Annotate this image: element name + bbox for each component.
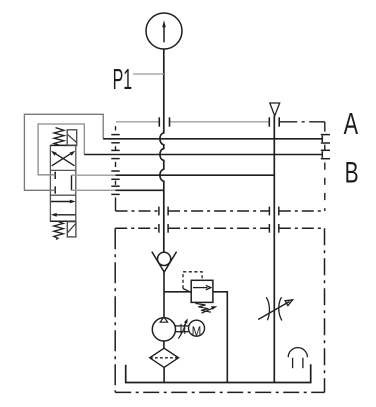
check valve <box>152 252 177 272</box>
valve V1 crossed arrows (top position) <box>51 151 75 166</box>
lower enclosure bottom edge dash-dot <box>115 391 324 393</box>
upper enclosure top edge right dash-dot <box>279 121 325 123</box>
wire outer loop (lower port to line A1) <box>24 114 103 190</box>
upper enclosure left edge dash-dot <box>115 126 117 211</box>
upper enclosure bottom edge dash-dot <box>116 210 325 212</box>
pump outlet triangle <box>160 317 167 322</box>
relief valve pilot line (dashed) <box>183 272 202 289</box>
filter F <box>150 348 179 367</box>
svg-text:A: A <box>344 106 359 141</box>
filter element (dashed) <box>150 357 178 359</box>
relief valve RV flow arrow <box>193 285 211 290</box>
pump shaft <box>175 324 188 334</box>
upper enclosure bottom edge crossing ticks <box>159 207 279 216</box>
pump rotation arrow <box>178 318 187 338</box>
wire measuring riser <box>273 116 275 383</box>
directional valve V1 body <box>50 145 75 221</box>
relief valve pilot diagonal <box>183 289 191 293</box>
wire port line to P1 tee <box>116 189 164 191</box>
relief valve adjust arrow <box>202 306 218 313</box>
wire filter to tank gallery <box>163 367 165 382</box>
lower enclosure left edge dash-dot <box>114 228 116 392</box>
wire valve right port upper <box>72 174 116 176</box>
svg-text:B: B <box>345 157 359 189</box>
breather vent <box>288 348 307 369</box>
valve V1 top solenoid <box>67 130 77 146</box>
upper enclosure left edge crossing ticks <box>111 135 119 195</box>
motor M <box>189 320 205 336</box>
relief valve spring <box>196 303 212 312</box>
work line 2 end bar <box>321 151 323 158</box>
lower enclosure right edge dash-dot <box>324 228 326 392</box>
valve V1 top spring <box>54 128 64 146</box>
valve V1 blocked-port ticks (centre position) <box>54 172 56 194</box>
wire main line to relief valve <box>164 291 191 293</box>
flow control valve (adjustable restrictor) <box>258 297 292 320</box>
wire inner loop (upper port to line A2) <box>38 124 84 175</box>
pump P <box>152 318 175 341</box>
upper enclosure right edge crossing ticks <box>321 135 330 159</box>
wire relief valve drain <box>213 292 227 383</box>
lower enclosure top edge dash-dot <box>115 227 324 229</box>
upper enclosure top edge crossing ticks <box>159 117 279 126</box>
wire P1 label lead <box>133 73 164 75</box>
wire pump to filter <box>163 341 165 348</box>
lower enclosure top edge crossing ticks <box>159 224 279 233</box>
valve V1 bottom spring <box>54 222 64 240</box>
work line 2 <box>84 154 322 156</box>
relief valve RV body <box>191 280 213 302</box>
svg-text:M: M <box>192 323 202 339</box>
valve V1 top plate <box>50 144 76 146</box>
work line 1 end bar <box>321 136 323 143</box>
upper enclosure top edge (gray) <box>116 121 269 123</box>
svg-text:P1: P1 <box>113 63 133 95</box>
wire port line to node B junction <box>116 174 275 176</box>
test point triangle <box>270 103 280 116</box>
work line 1 <box>103 138 322 140</box>
pressure gauge <box>146 13 182 49</box>
tank gallery line <box>126 364 311 382</box>
valve V1 bottom plate <box>50 220 76 222</box>
wire check valve to pump <box>163 272 165 318</box>
valve V1 parallel arrows (bottom position) <box>51 200 76 217</box>
wire valve right port lower <box>72 189 116 191</box>
wire P1 riser with crossover hops <box>160 49 164 252</box>
upper enclosure right edge dash-dot <box>324 122 326 211</box>
valve V1 bottom solenoid <box>67 222 76 237</box>
valve V1 bridge bracket (centre position) <box>71 175 73 190</box>
